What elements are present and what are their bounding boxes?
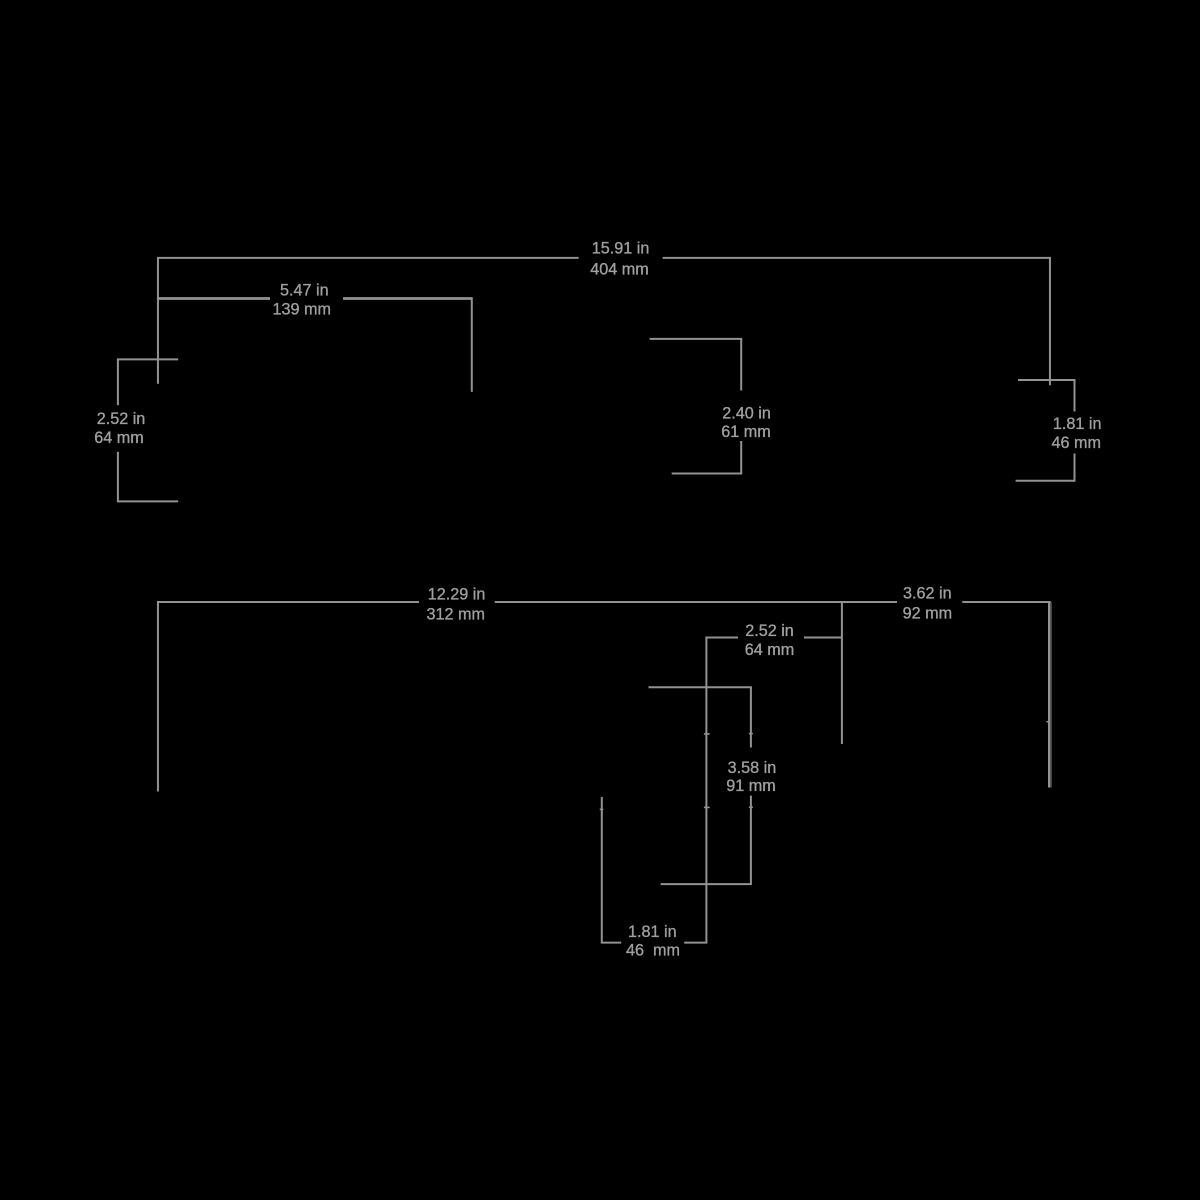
wire: junction extension drop at 12.29/3.62 boundary — [841, 602, 843, 744]
wire: 2.40in middle bracket bottom tick — [672, 473, 743, 475]
wire: right extension drop bottom view, bright part — [1048, 602, 1050, 788]
svg-text:92 mm: 92 mm — [903, 604, 952, 622]
wire: small tick crossing mid vertical lower — [704, 806, 710, 808]
svg-text:2.40 in: 2.40 in — [722, 404, 771, 422]
svg-text:3.62 in: 3.62 in — [903, 585, 952, 603]
wire: left extension drop bottom view — [157, 602, 159, 792]
wire: small tick on bottom-left bracket vertical — [600, 808, 604, 810]
svg-text:91 mm: 91 mm — [726, 777, 775, 795]
wire: 15.91in dimension line (top width), left segment — [157, 257, 579, 259]
wire: 2.52in left bracket vertical lower — [117, 452, 119, 502]
wire: 1.81in right bracket bottom tick — [1016, 480, 1076, 482]
wire: 2.40in middle bracket vertical lower — [740, 441, 742, 474]
svg-text:1.81 in: 1.81 in — [1053, 415, 1102, 433]
svg-text:2.52 in: 2.52 in — [745, 622, 794, 640]
wire: right extension drop from 5.47 line — [471, 297, 473, 392]
wire: 1.81in right bracket top tick — [1018, 379, 1076, 381]
svg-text:46 mm: 46 mm — [1052, 434, 1101, 452]
svg-text:64 mm: 64 mm — [94, 429, 143, 447]
wire: 2.40in middle bracket top tick — [650, 338, 743, 340]
svg-text:46 mm: 46 mm — [626, 941, 680, 959]
wire: small tick on right extension — [1046, 721, 1048, 723]
wire: vertical from 2.52 bottom dim to 1.81 bracket — [705, 638, 707, 943]
svg-text:312 mm: 312 mm — [427, 605, 485, 623]
svg-text:1.81 in: 1.81 in — [628, 923, 677, 941]
wire: 3.58in bracket vertical lower — [750, 796, 752, 885]
wire: 3.62in dimension line, right segment — [962, 601, 1050, 603]
wire: 2.40in middle bracket vertical upper — [740, 339, 742, 391]
wire: 2.52in left bracket bottom tick — [117, 500, 178, 502]
svg-text:64 mm: 64 mm — [745, 641, 794, 659]
svg-text:139 mm: 139 mm — [272, 300, 330, 318]
wire: 3.58in bracket bottom tick — [661, 883, 752, 885]
wire: 2.52in bottom dimension line, left segment — [705, 637, 738, 639]
svg-text:3.58 in: 3.58 in — [728, 759, 777, 777]
wire: 1.81in bottom bracket bottom line, right segment — [684, 942, 707, 944]
wire: 1.81in bottom bracket left vertical — [601, 797, 603, 943]
svg-text:5.47 in: 5.47 in — [280, 281, 329, 299]
wire: 1.81in right bracket vertical upper — [1074, 380, 1076, 412]
wire: 1.81in bottom bracket bottom line, left segment — [601, 942, 621, 944]
wire: left extension drop from 15.91 line — [157, 258, 159, 384]
wire: small tick crossing mid vertical upper — [704, 733, 710, 735]
wire: 3.58in bracket vertical upper — [750, 687, 752, 747]
svg-text:2.52 in: 2.52 in — [97, 410, 146, 428]
wire: 12.29in/3.62in dimension line, middle segment — [495, 601, 897, 603]
wire: 5.47in dimension line, left segment — [157, 297, 270, 300]
wire: 15.91in dimension line, right segment — [663, 257, 1051, 259]
wire: right extension drop bottom view, dim part — [1050, 602, 1052, 788]
wire: 2.52in left bracket top tick — [117, 358, 178, 360]
wire: right extension drop from 15.91 line — [1049, 258, 1051, 385]
wire: 2.52in bottom dimension line, right segment — [804, 637, 842, 639]
wire: small tick on 3.58 vertical lower — [749, 806, 753, 808]
wire: 12.29in dimension line, left segment — [157, 601, 419, 603]
svg-text:61 mm: 61 mm — [721, 423, 770, 441]
svg-text:12.29 in: 12.29 in — [428, 586, 486, 604]
wire: small tick on 3.58 vertical upper — [749, 733, 753, 735]
wire: 5.47in dimension line, right segment — [343, 297, 472, 300]
wire: 2.52in left bracket vertical upper — [117, 359, 119, 405]
svg-text:404 mm: 404 mm — [590, 260, 648, 278]
wire: 1.81in right bracket vertical lower — [1074, 454, 1076, 481]
svg-text:15.91 in: 15.91 in — [592, 239, 650, 257]
wire: 3.58in bracket top tick — [649, 686, 752, 688]
